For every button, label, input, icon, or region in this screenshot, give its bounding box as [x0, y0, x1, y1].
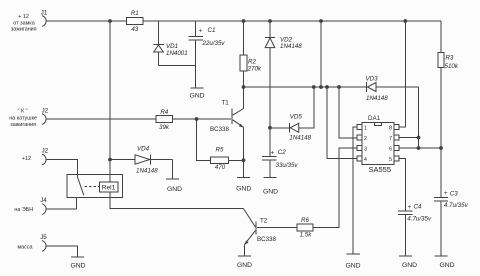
svg-text:GND: GND [236, 186, 251, 193]
ground (T2 emitter) [237, 256, 252, 269]
svg-text:зажигания: зажигания [10, 122, 36, 128]
node rail-R2 junction [242, 19, 246, 23]
ground (pin1) [345, 254, 360, 269]
svg-text:BC338: BC338 [210, 126, 229, 133]
wire J3 to relay switch [46, 160, 77, 177]
svg-text:43: 43 [131, 26, 138, 33]
svg-text:7: 7 [389, 136, 392, 142]
svg-text:510k: 510k [445, 63, 459, 70]
svg-text:VD5: VD5 [290, 114, 303, 121]
svg-text:R2: R2 [248, 58, 256, 65]
wire pin1 to ground [353, 127, 357, 253]
svg-text:J5: J5 [40, 234, 47, 241]
wire VD1 bottom to C1 [159, 65, 196, 67]
svg-text:VD4: VD4 [137, 146, 150, 153]
wire rail drop [320, 21, 322, 87]
wire rail to relay coil [109, 21, 111, 182]
relay Rel1 [67, 174, 123, 209]
connector J5 [42, 241, 46, 252]
ground (C3) [435, 256, 455, 269]
svg-text:R4: R4 [160, 109, 168, 116]
wire J4 to relay contact [46, 208, 77, 210]
transistor T2 BC338 [244, 218, 276, 256]
connector J2 (+12) [42, 154, 46, 165]
svg-text:1N4148: 1N4148 [289, 135, 311, 142]
svg-text:270k: 270k [247, 65, 262, 72]
svg-text:6: 6 [389, 146, 392, 152]
diode VD3 1N4148 [366, 75, 389, 102]
wire J5 to ground [46, 246, 77, 257]
wire VD5 riser [299, 87, 314, 128]
capacitor C3 4.7u/35v [434, 190, 469, 255]
wire T2 base to R6 [257, 227, 297, 229]
svg-text:1N4148: 1N4148 [366, 95, 388, 102]
svg-text:BC338: BC338 [257, 236, 276, 243]
svg-text:SA555: SA555 [369, 165, 392, 174]
resistor R1 [127, 18, 144, 25]
svg-text:C1: C1 [208, 27, 216, 34]
wire pin7 [399, 137, 418, 139]
svg-text:4.7u/35v: 4.7u/35v [407, 215, 432, 222]
wire pin4 riser [327, 87, 357, 159]
svg-text:8: 8 [389, 125, 392, 131]
svg-text:J1: J1 [41, 10, 48, 17]
svg-text:GND: GND [345, 262, 360, 269]
diode VD4 1N4148 [110, 146, 173, 175]
ground (C1) [189, 88, 204, 100]
svg-text:1: 1 [364, 125, 367, 131]
svg-text:+ 12: + 12 [18, 14, 29, 20]
svg-text:+: + [199, 27, 203, 34]
node R2/T1 collector [242, 85, 246, 89]
ground (T1 emitter) [236, 178, 251, 193]
ground (C4) [399, 256, 417, 269]
svg-text:GND: GND [263, 189, 278, 196]
svg-text:на ЭБН: на ЭБН [14, 207, 33, 213]
svg-text:J4: J4 [40, 197, 47, 204]
resistor R2 270k [240, 21, 262, 87]
svg-text:VD3: VD3 [366, 75, 379, 82]
svg-text:GND: GND [189, 93, 204, 100]
node base/R5 tap [195, 117, 199, 121]
wire R6 to pin3 [313, 148, 357, 228]
node rail drop junction [319, 19, 323, 23]
diode VD5 1N4148 [270, 114, 312, 142]
svg-text:J2: J2 [42, 108, 49, 115]
svg-text:1N4148: 1N4148 [136, 168, 158, 175]
wire node row y=87 [244, 86, 367, 88]
svg-text:+: + [270, 149, 274, 156]
wire relay coil to T2 collector [110, 192, 244, 209]
svg-text:39k: 39k [159, 124, 170, 131]
svg-text:1.5k: 1.5k [300, 232, 313, 239]
svg-text:+: + [408, 204, 412, 211]
connector J4 [42, 204, 46, 215]
svg-text:R1: R1 [131, 10, 139, 17]
svg-text:" К ": " К " [18, 109, 28, 115]
svg-text:2: 2 [364, 136, 367, 142]
capacitor C2 33u/35v [262, 149, 298, 177]
wire J2 to T1 base [46, 118, 156, 120]
resistor R6 1.5k [297, 224, 313, 231]
svg-text:33u/35v: 33u/35v [276, 162, 299, 169]
svg-text:на катушке: на катушке [9, 116, 37, 122]
node pin6/R3/C3 [439, 146, 443, 150]
svg-text:+12: +12 [22, 156, 31, 162]
svg-text:T2: T2 [260, 218, 268, 225]
ground (VD4) [166, 160, 182, 193]
svg-text:Rel1: Rel1 [102, 185, 116, 192]
node rail-VD2 junction [268, 19, 272, 23]
node VD4 tap [108, 158, 112, 162]
op-amp U1 / timer DA1 SA555 [357, 115, 399, 174]
svg-text:масса: масса [17, 244, 32, 250]
svg-text:R5: R5 [216, 147, 224, 154]
node rail-relay junction [108, 19, 112, 23]
wire pin2 riser [339, 87, 357, 138]
connector J2 [42, 114, 46, 125]
resistor R3 510k [438, 21, 459, 197]
svg-text:зажигания: зажигания [11, 26, 37, 32]
svg-text:4: 4 [364, 157, 367, 163]
svg-text:+: + [444, 190, 448, 197]
ground (J5) [70, 257, 85, 269]
svg-text:470: 470 [215, 164, 226, 171]
wire pin6 to R3/C3 [399, 147, 441, 149]
transistor T1 BC338 [210, 87, 244, 177]
wire pin8 to rail [399, 21, 405, 127]
svg-text:DA1: DA1 [368, 115, 381, 122]
wire R5 to emitter [229, 159, 244, 161]
svg-text:R6: R6 [301, 217, 309, 224]
node pin6 junction [417, 146, 421, 150]
svg-text:GND: GND [237, 262, 252, 269]
svg-text:R3: R3 [445, 55, 453, 62]
svg-text:3: 3 [364, 146, 367, 152]
resistor R4 39k [156, 116, 173, 123]
diode VD2 1N4148 [265, 21, 302, 156]
svg-text:J2: J2 [42, 147, 49, 154]
wire tap down to R5 [197, 119, 211, 160]
resistor R5 470 [211, 157, 229, 164]
svg-text:C2: C2 [278, 149, 286, 156]
node rail-pin8 junction [403, 19, 407, 23]
svg-text:GND: GND [167, 186, 182, 193]
svg-text:1N4001: 1N4001 [166, 50, 188, 57]
svg-text:T1: T1 [222, 99, 230, 106]
wire VD3 to pins 7,6 [418, 87, 420, 148]
connector J1 [42, 16, 46, 27]
svg-text:GND: GND [402, 262, 417, 269]
svg-text:1N4148: 1N4148 [280, 43, 302, 50]
svg-text:22u/35v: 22u/35v [202, 40, 226, 47]
capacitor C1 22u/35v [188, 21, 225, 88]
svg-text:5: 5 [389, 157, 392, 163]
svg-text:C4: C4 [414, 204, 422, 211]
node pin7 junction [417, 136, 421, 140]
capacitor C4 4.7u/35v [398, 204, 432, 256]
wire pin5 to C4 [399, 159, 405, 211]
node VD2/C2/VD5 [268, 126, 272, 130]
svg-text:GND: GND [439, 262, 454, 269]
svg-text:4.7u/35v: 4.7u/35v [444, 202, 469, 209]
svg-text:C3: C3 [450, 191, 458, 198]
wire +12 top rail [46, 20, 441, 22]
ground (C2) [263, 178, 278, 196]
svg-text:GND: GND [70, 262, 85, 269]
diode VD1 1N4001 [154, 21, 188, 66]
